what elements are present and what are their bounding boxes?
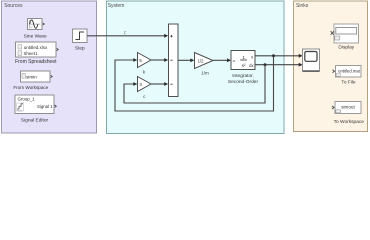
wire gain c to Sum (151, 82, 168, 86)
svg-text:Group_1: Group_1 (18, 97, 36, 102)
block To Workspace (332, 102, 364, 126)
gain k (138, 53, 152, 75)
svg-text:Display: Display (338, 44, 354, 50)
block From Spreadsheet (15, 42, 58, 65)
svg-text:Signal Editor: Signal Editor (21, 118, 49, 124)
gain c (138, 77, 152, 100)
block From Workspace (13, 71, 52, 90)
wire F (Step to Sum) (87, 30, 168, 37)
svg-text:1/m: 1/m (201, 70, 209, 75)
gain 1/m (195, 53, 214, 76)
svg-text:From Workspace: From Workspace (13, 85, 48, 90)
block Integrator Second-Order (228, 51, 259, 85)
area Sources (2, 1, 97, 133)
block Scope (303, 49, 320, 72)
svg-text:To File: To File (341, 79, 355, 85)
block To File (333, 66, 362, 86)
wire gain 1/m to Integrator (213, 58, 231, 62)
wire dx output (Integrator to Scope input 2) (255, 63, 303, 67)
svg-text:Signal 1: Signal 1 (37, 104, 53, 109)
svg-text:Integrator,: Integrator, (232, 73, 254, 79)
area Sinks (294, 1, 368, 132)
svg-text:s²: s² (242, 63, 246, 68)
block Sine Wave (24, 19, 47, 40)
wire feedback x to gain k (115, 56, 274, 111)
svg-text:To Workspace: To Workspace (334, 119, 365, 125)
block Display (dashboard) (331, 24, 359, 50)
svg-text:Second-Order: Second-Order (228, 79, 259, 85)
svg-text:F: F (124, 30, 127, 35)
sum block Add (169, 24, 179, 97)
svg-text:untitled.xlsx: untitled.xlsx (24, 45, 48, 50)
svg-text:From Spreadsheet: From Spreadsheet (15, 59, 57, 65)
svg-text:simin: simin (26, 74, 37, 79)
svg-text:Sinks: Sinks (296, 3, 309, 9)
svg-text:simout: simout (341, 104, 355, 109)
svg-text:Sources: Sources (4, 3, 23, 9)
svg-text:u: u (233, 58, 235, 63)
svg-text:untitled.mat: untitled.mat (338, 69, 360, 74)
svg-text:1/2: 1/2 (198, 58, 204, 63)
wire x output (Integrator to Scope input 1) (255, 54, 303, 58)
wire Sum to gain 1/m (178, 58, 194, 62)
block Signal Editor (15, 95, 56, 124)
svg-text:System: System (108, 3, 125, 9)
svg-text:Sine Wave: Sine Wave (24, 33, 47, 39)
svg-text:Step: Step (75, 45, 85, 51)
junction node dx (264, 63, 267, 66)
block Step (73, 29, 88, 51)
wire gain k to Sum (151, 58, 168, 62)
area System (107, 1, 285, 134)
wire feedback dx to gain c (124, 65, 265, 103)
junction node x (272, 54, 275, 57)
svg-text:Sheet1: Sheet1 (24, 51, 38, 56)
